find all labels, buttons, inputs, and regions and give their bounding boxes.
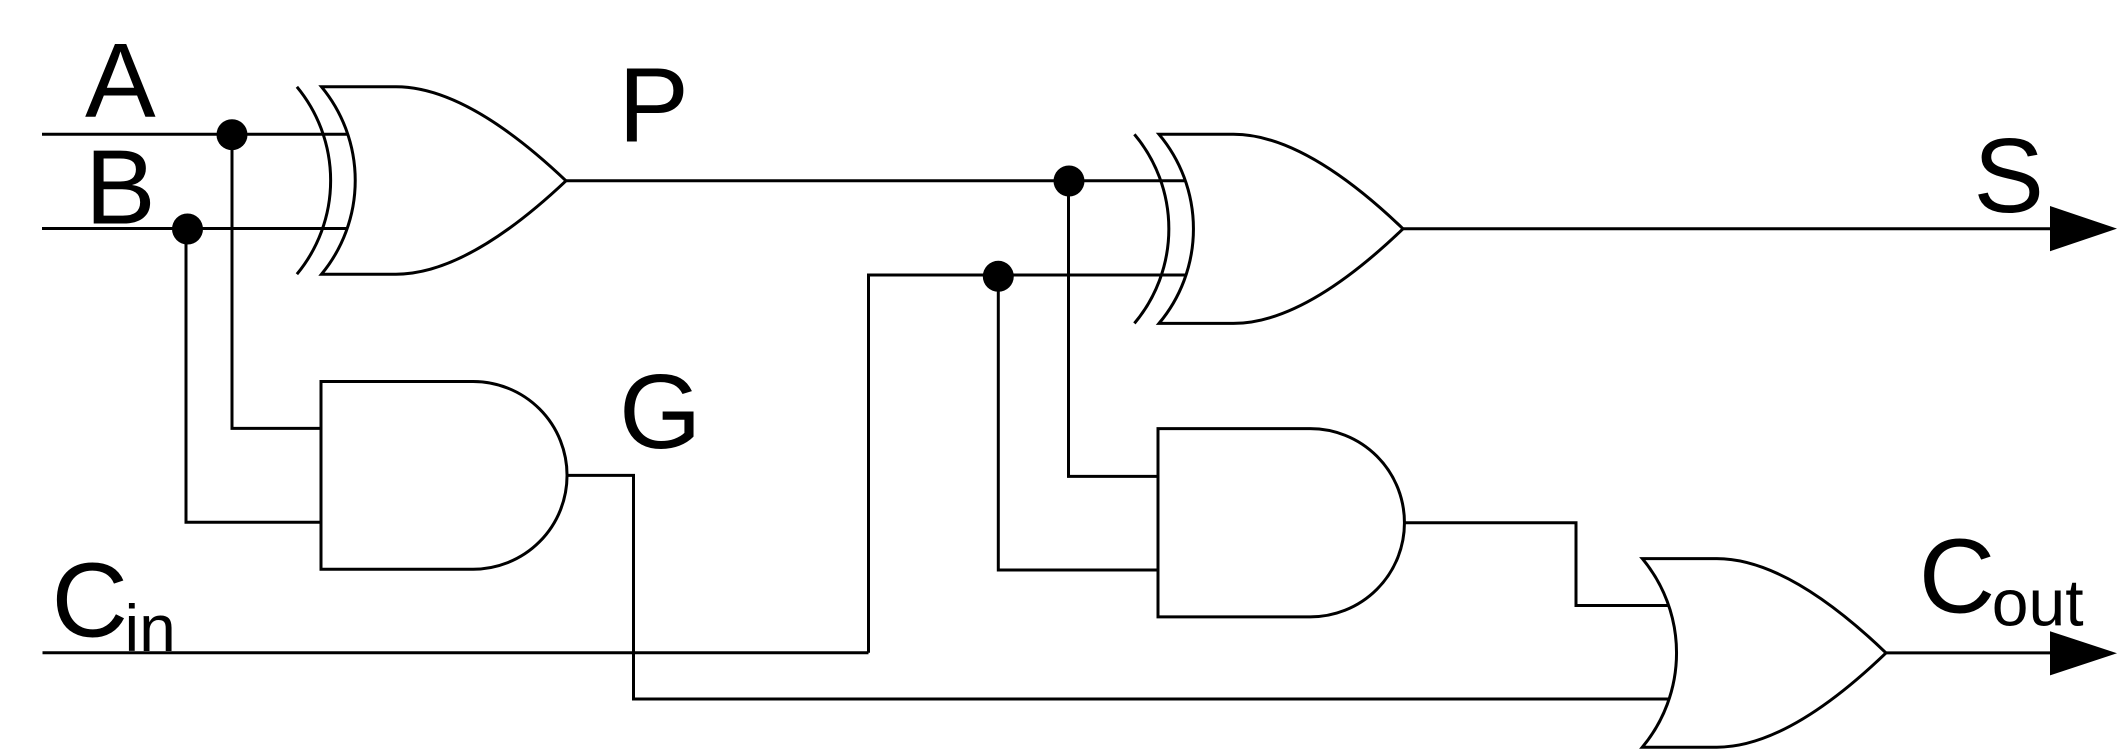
junction dot node Cin bbox=[983, 261, 1014, 292]
wire input Cin bbox=[43, 651, 869, 654]
or-gate U5 body bbox=[1642, 559, 1886, 748]
xor-gate U1 body bbox=[322, 87, 567, 274]
and-gate U2 body bbox=[321, 382, 567, 570]
and-gate U4 body bbox=[1158, 429, 1404, 617]
svg-text:A: A bbox=[85, 22, 156, 140]
svg-text:B: B bbox=[85, 129, 156, 247]
svg-text:S: S bbox=[1973, 117, 2044, 235]
arrowhead output Cout bbox=[2050, 631, 2117, 675]
svg-text:out: out bbox=[1992, 566, 2084, 640]
wire output S bbox=[1403, 227, 2052, 230]
junction dot node B bbox=[172, 214, 203, 245]
svg-text:C: C bbox=[1919, 517, 1996, 635]
svg-text:C: C bbox=[52, 542, 129, 660]
arrowhead output S bbox=[2050, 206, 2117, 251]
wire from AND2 to OR1 bbox=[1405, 523, 1668, 606]
wire input A bbox=[42, 133, 347, 136]
junction dot node A bbox=[217, 119, 248, 150]
svg-text:P: P bbox=[618, 47, 689, 165]
wire output Cout bbox=[1886, 651, 2052, 654]
wire P branch to AND2 bbox=[1069, 181, 1159, 476]
xor-gate U1 input arc bbox=[297, 87, 331, 274]
wire node G from AND1 to OR1 bbox=[567, 475, 1668, 699]
svg-text:G: G bbox=[619, 353, 701, 471]
wire input B bbox=[42, 227, 347, 230]
wire B branch to AND1 bbox=[186, 229, 321, 523]
wire A branch to AND1 bbox=[232, 134, 321, 428]
junction dot node P bbox=[1054, 166, 1085, 197]
svg-text:in: in bbox=[125, 591, 176, 665]
wire node P from XOR1 to XOR2 bbox=[566, 179, 1185, 182]
xor-gate U3 body bbox=[1159, 134, 1403, 323]
wire Cin branch to AND2 bbox=[998, 275, 1158, 570]
xor-gate U3 input arc bbox=[1134, 134, 1168, 323]
wire Cin riser to XOR2 bbox=[869, 275, 1186, 653]
